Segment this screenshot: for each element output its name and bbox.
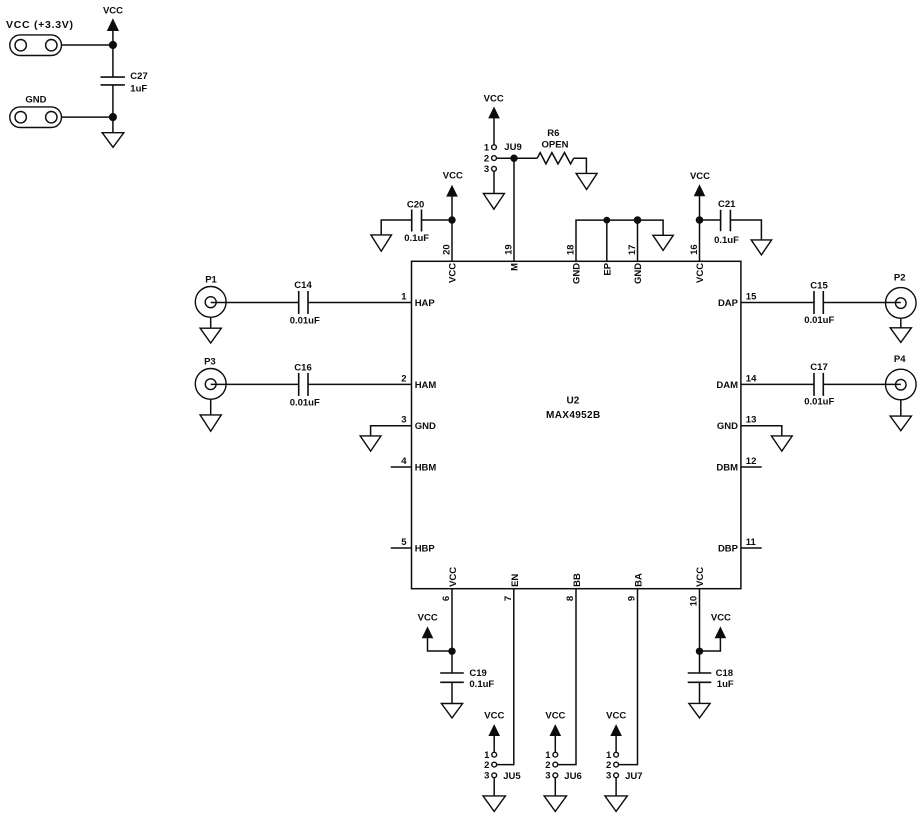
svg-text:0.1uF: 0.1uF bbox=[714, 235, 739, 246]
wire C15 to P2 bbox=[823, 302, 901, 304]
svg-text:11: 11 bbox=[746, 537, 757, 548]
power symbol VCC (pin 10) bbox=[700, 612, 732, 651]
svg-text:2: 2 bbox=[401, 373, 406, 384]
wire R6 to ground bbox=[574, 158, 587, 173]
svg-text:3: 3 bbox=[401, 415, 406, 426]
wire pin 15 to C15 bbox=[741, 302, 814, 304]
svg-text:0.01uF: 0.01uF bbox=[290, 398, 320, 409]
svg-text:R6: R6 bbox=[547, 128, 559, 139]
capacitor C18 bbox=[688, 668, 734, 690]
svg-text:3: 3 bbox=[484, 164, 489, 175]
svg-text:VCC: VCC bbox=[695, 263, 706, 283]
svg-text:C16: C16 bbox=[294, 362, 311, 373]
svg-text:GND: GND bbox=[717, 421, 738, 432]
wire pin 9 to JU7 pin 2 bbox=[618, 589, 637, 765]
wire junction down to pin 19 bbox=[513, 158, 515, 261]
wire pin 11 stub bbox=[741, 547, 762, 549]
jumper JU7 bbox=[606, 750, 643, 782]
svg-text:HBM: HBM bbox=[415, 462, 437, 473]
svg-text:M: M bbox=[509, 263, 520, 271]
svg-text:18: 18 bbox=[566, 245, 577, 256]
wire pin 20 bbox=[451, 220, 453, 261]
power symbol VCC (pin 6) bbox=[418, 612, 452, 651]
svg-text:VCC: VCC bbox=[418, 612, 438, 623]
wire P3 to C16 bbox=[211, 383, 299, 385]
svg-text:GND: GND bbox=[633, 263, 644, 284]
svg-text:OPEN: OPEN bbox=[542, 140, 569, 151]
svg-text:1uF: 1uF bbox=[130, 84, 147, 95]
wire C27 to GND junction bbox=[112, 85, 114, 117]
svg-text:6: 6 bbox=[441, 596, 452, 601]
svg-text:JU5: JU5 bbox=[503, 771, 521, 782]
svg-text:0.01uF: 0.01uF bbox=[290, 315, 320, 326]
svg-text:16: 16 bbox=[689, 244, 700, 255]
svg-text:C18: C18 bbox=[716, 668, 733, 679]
ground (left of C20) bbox=[371, 220, 412, 251]
svg-text:C17: C17 bbox=[810, 362, 827, 373]
jumper JU9 bbox=[484, 142, 522, 175]
svg-text:GND: GND bbox=[25, 94, 46, 105]
svg-text:VCC: VCC bbox=[711, 612, 731, 623]
junction node pin 20 bbox=[448, 216, 455, 223]
junction node pin 17 bbox=[634, 216, 642, 224]
ground (below C27) bbox=[102, 117, 124, 147]
svg-text:2: 2 bbox=[484, 760, 489, 771]
wire GND pad to junction bbox=[62, 116, 113, 118]
svg-text:3: 3 bbox=[545, 771, 550, 782]
power symbol VCC (JU5) bbox=[484, 710, 504, 752]
svg-text:10: 10 bbox=[688, 596, 699, 607]
svg-text:5: 5 bbox=[401, 537, 407, 548]
svg-text:C14: C14 bbox=[294, 280, 312, 291]
power symbol VCC (JU7) bbox=[606, 710, 626, 752]
wire pin 7 to JU5 pin 2 bbox=[497, 589, 514, 765]
svg-text:C21: C21 bbox=[718, 199, 736, 210]
wire pin 6 down bbox=[451, 589, 453, 652]
capacitor C15 bbox=[804, 281, 834, 326]
svg-text:17: 17 bbox=[627, 245, 638, 256]
svg-text:20: 20 bbox=[442, 244, 453, 255]
svg-text:C15: C15 bbox=[810, 281, 828, 292]
wire C19 to ground bbox=[451, 682, 453, 703]
junction node GND bbox=[109, 113, 117, 121]
wire pin 16 bbox=[699, 220, 701, 261]
ground (P1) bbox=[200, 317, 221, 343]
wire pin 4 stub bbox=[391, 466, 412, 468]
ground (P3) bbox=[200, 399, 221, 431]
capacitor C17 bbox=[804, 362, 834, 407]
junction node JU9/R6/pin19 bbox=[510, 155, 517, 162]
svg-text:8: 8 bbox=[565, 596, 576, 601]
svg-text:1uF: 1uF bbox=[717, 679, 734, 690]
wire junction to R6 bbox=[514, 157, 537, 159]
junction node EP bbox=[603, 217, 610, 224]
capacitor C19 bbox=[440, 668, 494, 690]
ground (P2) bbox=[890, 318, 911, 342]
ground (pin 3) bbox=[360, 436, 381, 451]
wire junction to C19 bbox=[451, 651, 453, 673]
svg-text:JU6: JU6 bbox=[564, 771, 581, 782]
connector P3 (coax) bbox=[195, 356, 226, 399]
wire C18 to ground bbox=[699, 682, 701, 703]
svg-text:3: 3 bbox=[606, 771, 611, 782]
ground (JU9 pin 3) bbox=[483, 194, 504, 210]
svg-text:19: 19 bbox=[504, 244, 515, 255]
svg-text:VCC: VCC bbox=[484, 93, 504, 104]
svg-text:JU9: JU9 bbox=[504, 142, 521, 153]
junction node pin 10 bbox=[696, 648, 703, 655]
svg-text:DAM: DAM bbox=[716, 380, 738, 391]
svg-text:U2: U2 bbox=[567, 396, 580, 407]
ground (right of R6) bbox=[576, 173, 597, 189]
svg-text:VCC: VCC bbox=[103, 6, 123, 17]
svg-text:14: 14 bbox=[746, 373, 757, 384]
svg-text:VCC: VCC bbox=[606, 710, 626, 721]
svg-text:C20: C20 bbox=[407, 199, 424, 210]
svg-text:C27: C27 bbox=[130, 71, 147, 82]
svg-text:HAP: HAP bbox=[415, 298, 436, 309]
svg-text:EP: EP bbox=[602, 262, 613, 275]
svg-text:0.1uF: 0.1uF bbox=[469, 679, 494, 690]
power symbol VCC (pin 20) bbox=[443, 170, 463, 220]
capacitor C21 bbox=[714, 199, 739, 246]
svg-text:HBP: HBP bbox=[415, 544, 436, 555]
ground (right of C21) bbox=[751, 240, 771, 255]
connector pad GND (stadium with two holes) bbox=[10, 107, 62, 128]
ground (P4) bbox=[890, 400, 911, 431]
svg-text:VCC: VCC bbox=[448, 567, 459, 587]
wire junction to C21 bbox=[700, 219, 721, 221]
svg-text:HAM: HAM bbox=[415, 380, 437, 391]
wire C21 to ground bbox=[730, 220, 761, 240]
wire P1 to C14 bbox=[211, 302, 299, 304]
capacitor C16 bbox=[290, 362, 320, 408]
svg-text:JU7: JU7 bbox=[625, 771, 642, 782]
power symbol VCC (pin 16) bbox=[690, 171, 710, 220]
svg-text:P2: P2 bbox=[894, 273, 906, 284]
svg-text:1: 1 bbox=[484, 143, 490, 154]
svg-text:VCC: VCC bbox=[690, 171, 710, 182]
wire C14 to pin 1 bbox=[308, 302, 412, 304]
svg-text:VCC: VCC bbox=[448, 263, 459, 283]
svg-text:GND: GND bbox=[415, 421, 436, 432]
svg-text:VCC: VCC bbox=[695, 567, 706, 587]
connector pad VCC (stadium with two holes) bbox=[10, 35, 62, 56]
svg-text:DAP: DAP bbox=[718, 298, 739, 309]
svg-text:1: 1 bbox=[401, 292, 407, 303]
wire VCC pad to junction bbox=[62, 44, 113, 46]
junction node pin 16 bbox=[696, 216, 704, 224]
capacitor C20 bbox=[404, 199, 429, 244]
ground (JU5) bbox=[483, 796, 505, 812]
svg-text:12: 12 bbox=[746, 456, 757, 467]
capacitor C27 bbox=[101, 71, 148, 95]
ground (GND rail) bbox=[653, 235, 673, 250]
wire JU9 pin2 to junction bbox=[496, 157, 514, 159]
svg-text:0.01uF: 0.01uF bbox=[804, 315, 834, 326]
svg-text:BA: BA bbox=[634, 573, 645, 587]
svg-text:13: 13 bbox=[746, 415, 757, 426]
wire pin 17 to rail bbox=[637, 220, 639, 261]
svg-text:P3: P3 bbox=[204, 356, 216, 367]
wire pin 8 to JU6 pin 2 bbox=[558, 589, 576, 765]
power symbol VCC (top-left) bbox=[103, 6, 123, 45]
svg-text:2: 2 bbox=[606, 760, 611, 771]
ground (pin 13) bbox=[771, 436, 792, 451]
svg-text:4: 4 bbox=[401, 456, 407, 467]
svg-text:2: 2 bbox=[545, 760, 550, 771]
svg-text:EN: EN bbox=[510, 574, 521, 587]
svg-text:P1: P1 bbox=[205, 274, 217, 285]
ground (JU6) bbox=[544, 796, 566, 812]
svg-text:P4: P4 bbox=[894, 354, 906, 365]
power symbol VCC (JU6) bbox=[545, 710, 565, 752]
svg-text:0.01uF: 0.01uF bbox=[804, 396, 834, 407]
wire GND rail pins 18/EP/17 bbox=[576, 220, 663, 261]
svg-text:GND: GND bbox=[572, 263, 583, 284]
ground (C18) bbox=[689, 703, 710, 718]
junction node VCC bbox=[109, 41, 117, 49]
connector P4 (coax) bbox=[886, 354, 917, 400]
svg-text:DBM: DBM bbox=[716, 462, 738, 473]
resistor R6 bbox=[537, 128, 574, 164]
ground (JU7) bbox=[605, 796, 627, 812]
wire pin 5 stub bbox=[391, 547, 412, 549]
svg-text:3: 3 bbox=[484, 771, 489, 782]
svg-text:BB: BB bbox=[572, 573, 583, 587]
wire JU5 pin3 to ground bbox=[493, 778, 495, 796]
svg-text:9: 9 bbox=[627, 596, 638, 601]
jumper JU5 bbox=[484, 750, 521, 782]
svg-text:0.1uF: 0.1uF bbox=[404, 233, 429, 244]
svg-text:VCC: VCC bbox=[484, 710, 504, 721]
junction node pin 6 bbox=[448, 648, 455, 655]
svg-text:2: 2 bbox=[484, 153, 489, 164]
svg-text:C19: C19 bbox=[469, 668, 486, 679]
wire pin 13 to ground bbox=[741, 426, 782, 436]
wire JU9 pin3 to ground bbox=[493, 171, 495, 193]
wire pin 10 down bbox=[699, 589, 701, 652]
svg-text:DBP: DBP bbox=[718, 544, 739, 555]
op IC U2 MAX4952B body bbox=[412, 261, 741, 588]
wire C16 to pin 2 bbox=[308, 383, 412, 385]
wire pin 14 to C17 bbox=[741, 383, 814, 385]
connector P1 (coax) bbox=[195, 274, 226, 317]
power symbol VCC (JU9) bbox=[484, 93, 504, 145]
wire C17 to P4 bbox=[823, 383, 901, 385]
wire pin 3 to ground bbox=[371, 426, 412, 436]
wire junction to C27 bbox=[112, 45, 114, 77]
wire JU7 pin3 to ground bbox=[615, 778, 617, 796]
svg-text:7: 7 bbox=[503, 596, 514, 601]
wire C20 to pin20 junction bbox=[422, 219, 453, 221]
wire EP to rail bbox=[606, 220, 608, 261]
svg-text:VCC: VCC bbox=[443, 170, 463, 181]
svg-text:VCC: VCC bbox=[545, 710, 565, 721]
wire pin 12 stub bbox=[741, 466, 762, 468]
capacitor C14 bbox=[290, 280, 320, 326]
svg-text:VCC (+3.3V): VCC (+3.3V) bbox=[6, 19, 74, 31]
wire junction to C18 bbox=[699, 651, 701, 673]
svg-text:MAX4952B: MAX4952B bbox=[546, 410, 601, 421]
ground (C19) bbox=[441, 704, 462, 718]
svg-text:15: 15 bbox=[746, 292, 757, 303]
wire JU6 pin3 to ground bbox=[554, 778, 556, 796]
connector P2 (coax) bbox=[886, 273, 917, 319]
jumper JU6 bbox=[545, 750, 582, 782]
